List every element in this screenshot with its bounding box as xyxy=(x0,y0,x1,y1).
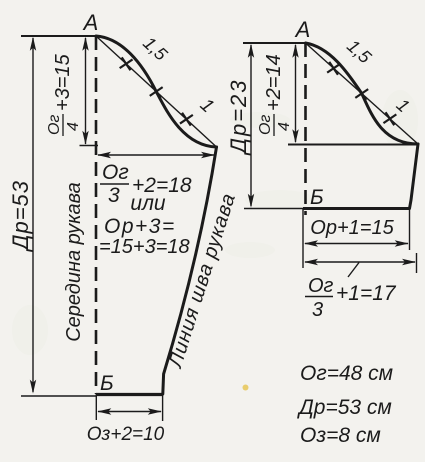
dimension line Ог/4+2=14 vertical xyxy=(295,45,297,142)
svg-text:Др=53: Др=53 xyxy=(8,180,33,253)
svg-text:Др=53 см: Др=53 см xyxy=(297,396,392,419)
X mark 2 (left) xyxy=(150,85,163,98)
bottom extension line to Др dimension xyxy=(21,395,96,397)
label Ог/3 +1=17 with fraction xyxy=(305,275,397,321)
dimension line Ор+1=15 xyxy=(305,243,408,245)
top shoulder line (right) xyxy=(243,42,306,44)
svg-text:Б: Б xyxy=(100,372,114,395)
extension line left of Оз dimension xyxy=(95,393,97,420)
X mark 2 (right) xyxy=(355,87,368,100)
svg-text:Б: Б xyxy=(310,186,324,209)
cap chord guide line (right) xyxy=(306,43,419,144)
underarm line (right) xyxy=(288,144,418,146)
label Ог/3 +2=18 xyxy=(100,161,192,207)
dashed centre line (right) xyxy=(304,43,307,215)
dimension line Др=23 vertical xyxy=(250,45,252,206)
yellow speck xyxy=(243,385,249,391)
bottom edge (left) xyxy=(96,393,163,396)
extension line right (Ор dimension) xyxy=(409,209,411,250)
dimension line Ог/4+3=15 vertical xyxy=(85,38,87,144)
seam line (Линия шва рукава) xyxy=(163,147,217,394)
svg-text:Ог: Ог xyxy=(308,275,334,297)
bottom edge thick (right) xyxy=(303,207,410,210)
svg-text:Оз+2=10: Оз+2=10 xyxy=(87,424,165,445)
tick at underarm level (left) xyxy=(80,145,99,147)
svg-text:Ог: Ог xyxy=(102,161,129,184)
svg-text:A: A xyxy=(82,10,99,35)
extension line far right xyxy=(416,253,418,273)
label Ог/4 +2=14 rotated with fraction xyxy=(257,54,293,136)
svg-text:A: A xyxy=(294,17,311,42)
sleeve cap curve (left) xyxy=(96,36,217,147)
bottom extension thin (right) xyxy=(244,208,303,210)
top shoulder line xyxy=(21,35,96,37)
sleeve cap curve (right) xyxy=(306,43,419,144)
svg-text:или: или xyxy=(130,192,166,215)
dimension line Др=53 vertical xyxy=(32,38,34,392)
svg-text:+3=15: +3=15 xyxy=(52,53,74,111)
svg-text:Ор+1=15: Ор+1=15 xyxy=(310,217,394,239)
leader slash xyxy=(348,263,359,278)
cap chord guide line (left) xyxy=(96,36,217,147)
dimension line Ог/3+1=17 xyxy=(305,261,415,263)
X mark 3 (left) xyxy=(180,113,193,126)
extension line left (both dimensions) xyxy=(302,209,304,268)
svg-text:Ог: Ог xyxy=(46,115,63,135)
dimension line Оз+2=10 xyxy=(98,411,161,413)
extension line right of Оз dimension xyxy=(162,390,164,421)
label Ог/4 +3=15 rotated with fraction xyxy=(46,53,82,136)
svg-text:3: 3 xyxy=(312,299,323,321)
faint show-through smudges xyxy=(12,90,418,355)
svg-text:+1=17: +1=17 xyxy=(336,282,397,305)
seam line (right) xyxy=(410,144,419,209)
svg-text:=15+3=18: =15+3=18 xyxy=(99,236,190,258)
svg-text:Ог: Ог xyxy=(257,115,274,135)
svg-text:4: 4 xyxy=(276,122,293,131)
X mark 1 (left) xyxy=(120,57,133,70)
svg-text:Ор+3=: Ор+3= xyxy=(104,215,176,238)
X mark 3 (right) xyxy=(383,112,396,125)
svg-text:Ог=48 см: Ог=48 см xyxy=(300,362,393,385)
svg-text:Оз=8 см: Оз=8 см xyxy=(300,424,381,447)
svg-text:+2=14: +2=14 xyxy=(263,54,285,111)
svg-text:3: 3 xyxy=(108,184,120,207)
X mark 1 (right) xyxy=(327,62,340,75)
svg-text:Середина рукава: Середина рукава xyxy=(63,182,85,342)
dashed centre line (Середина рукава) xyxy=(95,36,98,394)
svg-text:Др=23: Др=23 xyxy=(226,78,251,156)
svg-text:4: 4 xyxy=(65,122,82,131)
width dimension arrows y=155 (left) xyxy=(98,154,214,156)
